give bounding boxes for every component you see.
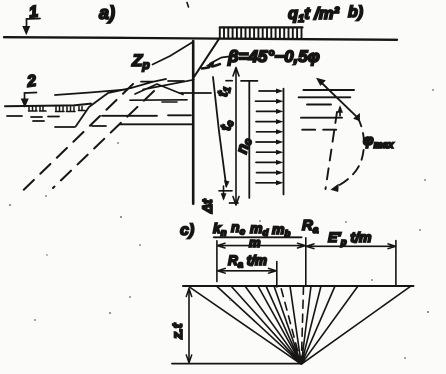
dash under line C: [162, 101, 177, 103]
slanted wall deflection line: [213, 77, 226, 186]
rotation radius arrow: [320, 81, 359, 119]
solid diagonal through hatches: [76, 79, 166, 126]
top layer tick: [226, 80, 258, 82]
line A left of tent: [55, 90, 126, 96]
tent dash 1: [141, 81, 153, 83]
tick y203: [230, 202, 239, 204]
svg-text:Ra t/m: Ra t/m: [228, 253, 267, 271]
svg-text:t1: t1: [215, 84, 234, 98]
beta spreading line: [194, 39, 219, 77]
Zp leader line: [153, 42, 193, 65]
z.t dimension line: [188, 290, 190, 362]
svg-text:m: m: [249, 235, 261, 250]
dimension line Ep: [307, 245, 395, 247]
svg-text:β=45°−0,5φ: β=45°−0,5φ: [227, 47, 320, 66]
water level 2 line: [5, 104, 91, 107]
Ra tick: [276, 262, 278, 288]
line C under tent: [130, 99, 187, 101]
svg-text:E′p t/m: E′p t/m: [328, 229, 371, 248]
tent crossing line: [143, 80, 194, 90]
tent dash 2: [168, 80, 184, 82]
fraction bar: [214, 236, 302, 238]
svg-text:tc: tc: [218, 118, 237, 132]
level flag 1: [27, 19, 41, 32]
right tick: [395, 241, 397, 285]
water line y115: [102, 114, 191, 117]
scan speckle dots: [9, 89, 434, 359]
left tick: [216, 241, 218, 282]
arrowhead at deflection bottom: [224, 181, 229, 188]
baseline: [183, 285, 414, 287]
dimension line tc vertical: [235, 69, 237, 205]
pressure diagram right line: [283, 89, 285, 195]
influence fan lines: [188, 286, 411, 364]
svg-text:φmax: φmax: [363, 132, 394, 151]
right soil layer lines: [299, 90, 354, 130]
short dashes under level 2: [7, 116, 106, 127]
dashed phi-max arc: [334, 117, 364, 188]
svg-text:nc: nc: [231, 219, 246, 238]
small delta-t arrow: [223, 186, 225, 199]
svg-text:b): b): [348, 4, 363, 21]
dimension line m: [219, 245, 305, 247]
distributed load q1 hatched block: [220, 27, 303, 38]
bottom line: [172, 363, 301, 365]
pressure diagram left line: [248, 81, 250, 198]
dashed slip line D1: [24, 84, 134, 190]
middle tick: [305, 238, 307, 286]
svg-text:a): a): [99, 3, 115, 23]
tent scribble: [135, 84, 183, 95]
svg-text:z.t: z.t: [169, 322, 185, 340]
dashed slip line D2: [53, 91, 154, 188]
svg-text:Ra: Ra: [302, 217, 319, 236]
arc top arrowhead: [354, 114, 360, 122]
small up arrow: [339, 108, 341, 116]
pressure arrows: [256, 91, 278, 183]
svg-text:Zp: Zp: [131, 51, 150, 72]
ground surface line: [4, 37, 397, 40]
svg-text:2: 2: [25, 73, 37, 91]
dimension line Ra: [219, 270, 276, 272]
tick y190: [219, 190, 232, 192]
svg-text:q1t /m²: q1t /m²: [288, 5, 340, 25]
dashed chord line: [326, 112, 338, 189]
water line y124 crossing to wall: [120, 93, 211, 124]
svg-text:kn: kn: [213, 220, 227, 239]
beta angle arc: [202, 64, 220, 69]
arc bottom arrowhead: [331, 184, 339, 192]
dashed fan line right: [301, 286, 303, 364]
level flag 2: [25, 93, 37, 101]
sheet pile wall: [192, 41, 195, 204]
svg-text:Δt: Δt: [200, 199, 215, 214]
beta leader arrow: [210, 57, 229, 64]
small prime mark on top edge: [187, 3, 189, 8]
svg-text:c): c): [180, 222, 194, 239]
dashed fan line left: [281, 286, 302, 364]
soil hatch marks sh: [29, 107, 86, 112]
